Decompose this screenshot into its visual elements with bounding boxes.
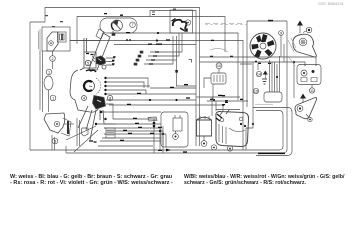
svg-text:10: 10 <box>217 64 221 68</box>
svg-text:4: 4 <box>83 96 85 100</box>
svg-text:14: 14 <box>257 72 261 76</box>
svg-text:3: 3 <box>54 139 56 143</box>
svg-text:9: 9 <box>280 31 282 35</box>
svg-text:5: 5 <box>87 61 89 65</box>
svg-text:2: 2 <box>51 57 53 61</box>
svg-text:11: 11 <box>310 89 314 93</box>
svg-text:1: 1 <box>52 96 54 100</box>
svg-text:8: 8 <box>109 96 111 100</box>
svg-text:15: 15 <box>254 89 258 93</box>
svg-text:7: 7 <box>131 23 133 27</box>
svg-text:1: 1 <box>48 70 50 74</box>
